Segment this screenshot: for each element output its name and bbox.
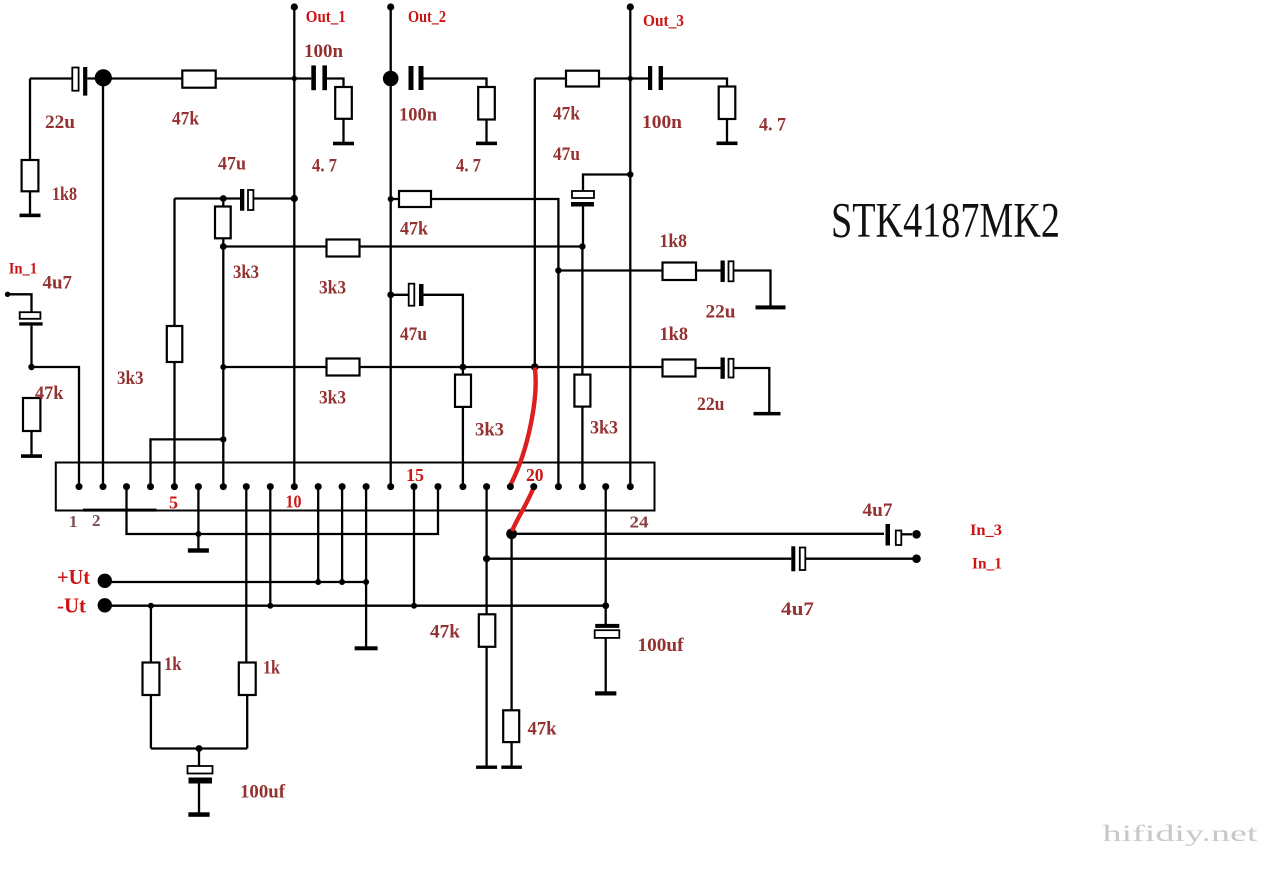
svg-text:22u: 22u xyxy=(697,394,725,415)
wire 22u#1 to ground xyxy=(734,271,771,306)
wire 47u ch3 bottom to y=247 xyxy=(582,207,584,247)
ground (1k8) xyxy=(20,214,41,218)
wire input node to 22u cap xyxy=(30,77,72,79)
wire pin8 to 1k #2 xyxy=(245,487,247,663)
capacitor 100n (ch2) plates xyxy=(409,66,414,90)
capacitor 4u7 (In_1) plates xyxy=(791,546,795,571)
resistor 3k3 (horizontal y=247) xyxy=(327,240,360,257)
wire Out_2 vertical to pin 14 xyxy=(390,7,392,487)
svg-text:Out_3: Out_3 xyxy=(643,11,684,30)
svg-text:3k3: 3k3 xyxy=(319,388,346,409)
wire 47k pin18 to ground xyxy=(485,647,487,766)
wire 47u to Out_1 line xyxy=(253,197,294,199)
wire pin22 vertical xyxy=(581,247,583,487)
red wire pin20 to node x=511 xyxy=(512,488,533,531)
svg-text:4. 7: 4. 7 xyxy=(456,156,481,177)
ground (22u#2) xyxy=(754,412,781,416)
wire y=270.5 to 1k8 #1 xyxy=(558,269,662,271)
svg-text:1k: 1k xyxy=(263,658,280,679)
svg-text:Out_1: Out_1 xyxy=(306,7,346,26)
resistor 47k (input) xyxy=(23,398,40,431)
node In_1 terminal dot xyxy=(5,292,10,297)
capacitor 100uf #1 plates xyxy=(595,624,619,628)
junction dot ground bus xyxy=(195,531,201,537)
svg-text:47u: 47u xyxy=(400,324,427,345)
capacitor 22u #2 plates xyxy=(721,358,725,379)
wire 1k#1 down xyxy=(150,695,152,749)
wire y=367 bus xyxy=(223,366,662,368)
ground (47k x511) xyxy=(501,766,522,769)
svg-text:1k8: 1k8 xyxy=(660,231,688,252)
svg-text:24: 24 xyxy=(630,513,650,532)
resistor 47k (ch2) xyxy=(399,191,431,207)
junction dot Out_1/main wire xyxy=(292,76,297,81)
svg-text:100n: 100n xyxy=(642,112,682,133)
node In_1 terminal dot xyxy=(912,554,921,563)
capacitor 100n (ch1) plates xyxy=(311,65,316,90)
svg-text:100uf: 100uf xyxy=(638,635,685,656)
wire pin6 leg xyxy=(197,487,199,534)
svg-text:3k3: 3k3 xyxy=(475,420,504,441)
wire 47k ch2 to pin21 corner xyxy=(431,199,558,487)
wire R4.7 to ground (ch3) xyxy=(726,119,728,142)
junction dot -Ut/pin15 xyxy=(411,603,417,609)
junction dot 47u-Out_1 xyxy=(291,195,298,202)
junction big dot bus x=534.8 xyxy=(531,363,539,371)
wire -Ut to 1k #1 xyxy=(150,606,152,663)
junction dot pin4 wire on pin7 line xyxy=(220,436,226,442)
resistor 47k (x=511) xyxy=(503,710,519,742)
ground (input 47k) xyxy=(21,454,42,458)
svg-text:47k: 47k xyxy=(172,109,199,130)
svg-text:1k: 1k xyxy=(164,654,182,675)
resistor 4.7 (ch3) xyxy=(719,87,736,120)
wire R4.7 to ground (ch1) xyxy=(342,119,344,142)
junction dot below 3k3 x=223 xyxy=(220,243,227,250)
wire 1k#2 down xyxy=(246,695,248,749)
wire 100uf#2 to ground xyxy=(198,784,200,813)
junction dot +Ut/pin13 xyxy=(363,579,369,585)
junction dot +Ut/pin11 xyxy=(315,579,321,585)
wire In_1 horizontal from pin18 line xyxy=(487,558,792,560)
resistor 3k3 (x=462.9) xyxy=(455,375,471,407)
svg-text:1k8: 1k8 xyxy=(52,184,77,205)
junction dot pin18/In_1 wire xyxy=(483,555,490,562)
svg-text:100n: 100n xyxy=(399,105,437,126)
resistor 3k3 (x=174.5) xyxy=(167,326,183,362)
wire node to 47k #2 below xyxy=(510,534,512,711)
capacitor 4u7 (input) plates xyxy=(20,312,41,319)
junction dot +Ut/pin12 xyxy=(339,579,345,585)
wire 47u ch3 top to Out_3 xyxy=(583,175,630,192)
capacitor 47u (ch2) plates xyxy=(409,284,415,306)
svg-text:20: 20 xyxy=(526,465,544,485)
wire pin18 down xyxy=(485,487,487,615)
wire 47k ch2 left xyxy=(391,198,399,200)
wire y=247 bus xyxy=(223,245,582,247)
wire 4u7 to In_1 terminal xyxy=(805,558,916,560)
wire pin2 vertical xyxy=(102,79,104,487)
svg-text:1k8: 1k8 xyxy=(660,324,689,345)
resistor 1k8 #2 xyxy=(663,360,696,377)
junction big dot Out_2 xyxy=(383,71,399,87)
node +Ut terminal dot xyxy=(98,574,112,588)
wire 47k to ground (input) xyxy=(30,431,32,455)
svg-text:47k: 47k xyxy=(430,622,460,643)
resistor 4.7 (ch1) xyxy=(335,87,352,119)
wire Out_3 vertical to pin 24 xyxy=(629,7,631,487)
wire 4u7 down to node xyxy=(30,326,32,367)
resistor 47k (ch3) xyxy=(566,71,599,87)
wire R4.7 to ground (ch2) xyxy=(485,120,487,143)
wire In_1 to 4u7 xyxy=(8,294,32,312)
resistor 3k3 (below node, x=223) xyxy=(222,199,224,248)
wire x=534.8 from 47k ch3 down to bus xyxy=(534,79,536,368)
wire pin23 down to 100uf xyxy=(605,487,607,624)
resistor 47k (pin18) xyxy=(479,614,496,647)
IC U1 STK4187MK2 body xyxy=(56,463,655,511)
wire down to 3k3 (x=174.5) xyxy=(173,199,175,327)
capacitor 4u7 (In_3) plates xyxy=(886,524,891,546)
wire 47k ch3 to 100n xyxy=(599,77,648,79)
svg-text:47u: 47u xyxy=(553,144,580,165)
svg-text:4. 7: 4. 7 xyxy=(759,115,786,136)
capacitor 100n (ch3) plates xyxy=(648,66,652,90)
svg-text:100n: 100n xyxy=(304,41,343,62)
junction dot Out_2/47k xyxy=(388,196,394,202)
ground (47k pin18) xyxy=(476,766,497,769)
svg-text:22u: 22u xyxy=(706,302,736,323)
svg-text:STK4187MK2: STK4187MK2 xyxy=(831,192,1060,248)
wire feedback node to 47u cap (ch1) xyxy=(175,197,241,199)
junction big dot at 22u/node xyxy=(95,69,112,86)
capacitor 22u #1 plates xyxy=(721,261,725,283)
svg-text:5: 5 xyxy=(169,493,178,513)
svg-text:1: 1 xyxy=(69,512,78,531)
svg-text:3k3: 3k3 xyxy=(233,262,259,283)
svg-text:3k3: 3k3 xyxy=(319,278,346,299)
svg-text:4u7: 4u7 xyxy=(863,500,893,521)
svg-text:47k: 47k xyxy=(35,383,64,404)
ground (22u#1) xyxy=(756,305,786,309)
wire Out_2 to 47u (ch2) xyxy=(391,294,409,296)
svg-text:100uf: 100uf xyxy=(240,782,286,803)
capacitor 100uf #2 plates xyxy=(188,766,213,774)
svg-text:In_3: In_3 xyxy=(970,522,1002,539)
svg-text:47k: 47k xyxy=(553,104,580,125)
wire 1k8 to ground xyxy=(29,191,31,214)
node Out_2 terminal dot xyxy=(387,3,394,10)
wire 47k x511 to ground xyxy=(510,742,512,766)
capacitor 47u (ch1) plates xyxy=(240,189,244,211)
ground (R4.7 ch1) xyxy=(333,142,354,146)
wire 100n to R 4.7 (ch1) xyxy=(327,79,344,88)
wire 100n to R4.7 (ch3) xyxy=(663,79,727,87)
svg-text:In_1: In_1 xyxy=(9,261,38,278)
svg-text:3k3: 3k3 xyxy=(590,418,618,439)
resistor 3k3 (horizontal y=367) xyxy=(327,359,360,376)
svg-text:4. 7: 4. 7 xyxy=(312,156,337,177)
svg-text:3k3: 3k3 xyxy=(117,368,144,389)
resistor 3k3 (x=582.4) xyxy=(574,375,590,407)
IC bottom-edge thick segment xyxy=(83,509,157,512)
resistor 1k #1 xyxy=(143,663,160,696)
junction dot input node xyxy=(28,364,34,370)
ground (pins 3-6-16) xyxy=(188,548,209,552)
wire 100n to R4.7 (ch2) xyxy=(424,79,487,88)
node -Ut terminal dot xyxy=(98,598,112,612)
IC pin dots 1-24 xyxy=(76,483,634,490)
svg-text:4u7: 4u7 xyxy=(781,599,815,620)
wire 1k8#1 to 22u#1 xyxy=(696,269,721,271)
svg-text:2: 2 xyxy=(92,511,101,530)
resistor 1k8 xyxy=(22,160,39,191)
wire +Ut rail xyxy=(105,581,366,583)
wire -Ut rail xyxy=(105,605,606,607)
ground (100uf#1) xyxy=(595,691,616,695)
svg-text:47u: 47u xyxy=(218,154,246,175)
ground (100uf#2) xyxy=(188,812,209,817)
svg-text:+Ut: +Ut xyxy=(57,565,90,589)
resistor 4.7 (ch2) xyxy=(478,87,495,120)
ground (R4.7 ch3) xyxy=(717,142,738,146)
junction dot Out_2/47u xyxy=(387,291,394,298)
wire 22u to R 47k xyxy=(87,77,183,79)
ground (pin13) xyxy=(355,646,378,650)
node Out_3 terminal dot xyxy=(627,3,634,10)
wire down to 100uf#2 xyxy=(198,749,200,767)
svg-text:10: 10 xyxy=(286,492,302,512)
node Out_1 terminal dot xyxy=(291,3,298,10)
svg-text:22u: 22u xyxy=(45,112,75,133)
svg-text:In_1: In_1 xyxy=(972,556,1002,573)
junction dot 47u-Out_3 xyxy=(627,171,633,177)
wire Out_1 vertical to pin 10 xyxy=(293,7,295,487)
wire 47k ch3 left lead xyxy=(535,77,566,79)
node In_3 terminal dot xyxy=(912,530,921,539)
junction dot bus/pin17 line xyxy=(460,364,467,371)
wire pin4 jumper to pin7 line xyxy=(151,439,224,486)
resistor 47k (ch1 input) xyxy=(182,71,215,88)
junction dot 47u/y247 xyxy=(579,243,585,249)
wire 4u7 to In_3 terminal xyxy=(902,533,913,535)
wire pin13 through +Ut to ground xyxy=(365,487,367,647)
wire pin15 to -Ut xyxy=(413,487,415,606)
svg-text:-Ut: -Ut xyxy=(57,594,86,618)
wire 100uf#1 to ground xyxy=(605,638,607,692)
wire pin12 to +Ut xyxy=(341,487,343,582)
red wire pin19 to bus node xyxy=(510,368,535,486)
svg-text:Out_2: Out_2 xyxy=(408,7,446,26)
svg-text:15: 15 xyxy=(406,465,424,485)
wire 1k8#2 to 22u#2 xyxy=(696,367,721,369)
wire node down to R 1k8 xyxy=(29,79,31,161)
resistor 1k8 #1 xyxy=(663,263,697,281)
wire stub to ground bar xyxy=(197,534,199,549)
capacitor 22u plates xyxy=(72,68,78,91)
junction dot 1k join xyxy=(196,745,203,752)
wire R 47k to Out_1 node xyxy=(216,77,312,79)
wire input node to pin 1 xyxy=(32,367,80,487)
ground (R4.7 ch2) xyxy=(476,142,497,146)
svg-text:hifidiy.net: hifidiy.net xyxy=(1103,821,1259,846)
wire pin9 to -Ut xyxy=(269,487,271,606)
junction dot bus/pin7 line xyxy=(220,364,226,370)
junction dot -Ut/pin9 xyxy=(267,603,273,609)
wire pin3/pin6/pin16 ground bus xyxy=(127,487,439,534)
wire pin7 vertical xyxy=(222,247,224,487)
junction dot -Ut/1k#1 xyxy=(148,603,154,609)
svg-text:47k: 47k xyxy=(528,719,557,740)
junction dot Out_3 top xyxy=(628,76,633,81)
wire joining 1k bottoms xyxy=(151,747,247,749)
junction dot y199/pin21 line xyxy=(555,267,561,273)
wire In_3 horizontal xyxy=(512,533,884,535)
svg-text:4u7: 4u7 xyxy=(43,273,73,294)
wire 22u#2 to ground xyxy=(734,368,770,412)
node big dot x=511 xyxy=(506,528,517,539)
resistor 1k #2 xyxy=(239,663,256,696)
capacitor 47u (ch3) plates xyxy=(572,191,594,198)
wire 47u to pin17 corner xyxy=(424,295,463,487)
svg-text:47k: 47k xyxy=(400,219,428,240)
junction dot feedback node xyxy=(220,195,227,202)
wire pin11 to +Ut xyxy=(317,487,319,582)
junction dot -Ut/pin23 xyxy=(602,602,609,609)
